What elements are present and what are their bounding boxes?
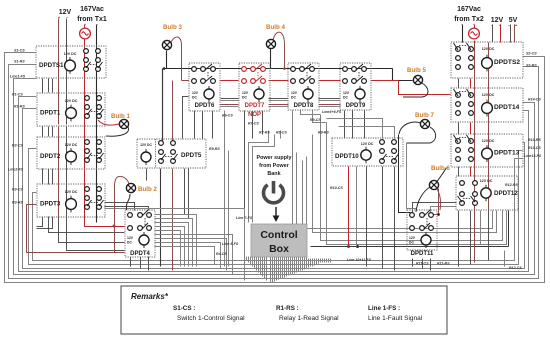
svg-text:S2-CS: S2-CS — [526, 52, 537, 56]
relay DPDT12 — [456, 176, 518, 210]
AC source Tx1 — [80, 28, 91, 39]
svg-text:DPDT13: DPDT13 — [494, 150, 520, 157]
junction red to line11 — [347, 245, 350, 248]
svg-text:Line2-FS: Line2-FS — [8, 168, 24, 172]
power symbol — [264, 181, 284, 203]
svg-text:+: + — [515, 24, 517, 28]
junction bulb2 branch — [113, 225, 116, 228]
svg-text:R3-CS: R3-CS — [12, 188, 23, 192]
svg-text:−: − — [508, 24, 510, 28]
svg-text:R7-CS: R7-CS — [248, 122, 259, 126]
svg-text:DC: DC — [242, 96, 247, 100]
svg-text:12V DC: 12V DC — [361, 142, 374, 146]
svg-text:R1-RS: R1-RS — [14, 105, 25, 109]
lamp Bulb 5 — [407, 67, 426, 85]
svg-text:DPDT9: DPDT9 — [346, 103, 366, 109]
wire: inner right risers to DPDT12 bottom — [505, 211, 509, 267]
svg-text:Bulb 1: Bulb 1 — [111, 113, 130, 120]
svg-text:Bulb 2: Bulb 2 — [138, 186, 157, 193]
svg-text:−: − — [491, 24, 493, 28]
svg-text:12V: 12V — [409, 236, 416, 240]
svg-text:167Vac: 167Vac — [80, 6, 104, 13]
wire: top-row relay chain row2 y=81 (red) — [221, 81, 451, 95]
relay DPDT8 — [288, 63, 319, 110]
lamp Bulb 7 — [415, 112, 434, 129]
svg-text:12V: 12V — [242, 91, 249, 95]
svg-text:Bulb 5: Bulb 5 — [407, 67, 426, 74]
label 12V left supply — [58, 9, 72, 20]
wire: top-row relay chain row1 y=68.5 — [163, 67, 413, 80]
power supply block — [256, 155, 291, 203]
svg-text:Bulb 4: Bulb 4 — [266, 24, 285, 31]
wire: bulb7 leads — [399, 122, 436, 212]
relay DPDT2 — [37, 137, 105, 169]
svg-text:DPDT14: DPDT14 — [494, 104, 520, 111]
svg-text:Remarks*: Remarks* — [131, 292, 169, 301]
svg-text:S1-CS :: S1-CS : — [173, 305, 195, 312]
wire: nested drops left of Control Box — [105, 209, 245, 281]
lamp Bulb 4 — [266, 24, 285, 49]
wire: DPDT4 surroundings — [105, 203, 197, 271]
svg-text:R13-CS: R13-CS — [528, 146, 541, 150]
junction coil drop on line11 — [356, 245, 359, 248]
svg-text:DC: DC — [343, 96, 348, 100]
svg-text:Relay 1-Read Signal: Relay 1-Read Signal — [279, 315, 339, 322]
arrow power to control box — [273, 207, 280, 222]
svg-text:R6-CS: R6-CS — [222, 114, 233, 118]
svg-text:R13-RS: R13-RS — [528, 138, 541, 142]
wire: bulb1 loop — [98, 120, 119, 125]
svg-text:+: + — [473, 23, 475, 27]
svg-text:12V: 12V — [192, 91, 199, 95]
svg-text:R12-CS: R12-CS — [509, 266, 522, 270]
svg-text:DPDT2: DPDT2 — [40, 153, 61, 160]
svg-text:+: + — [499, 24, 501, 28]
svg-text:12V: 12V — [127, 236, 134, 240]
svg-text:R12-RS: R12-RS — [505, 183, 518, 187]
svg-text:−: − — [461, 23, 463, 27]
wire: 12V left feed pair — [59, 19, 125, 251]
svg-text:R14-CS: R14-CS — [528, 98, 541, 102]
svg-text:R9-CS: R9-CS — [310, 118, 321, 122]
svg-text:DC: DC — [127, 241, 132, 245]
svg-text:167Vac: 167Vac — [457, 6, 481, 13]
wire: DPDT5 bottom drops — [147, 169, 189, 271]
svg-text:12V DC: 12V DC — [64, 52, 77, 56]
svg-text:R9-RS: R9-RS — [318, 131, 329, 135]
svg-text:12V DC: 12V DC — [482, 93, 495, 97]
svg-text:12V DC: 12V DC — [65, 190, 78, 194]
label 167Vac from Tx2 — [454, 6, 484, 27]
svg-text:DPDT4: DPDT4 — [130, 251, 150, 257]
label 12V right supply — [491, 17, 504, 28]
svg-text:R1-RS :: R1-RS : — [276, 305, 299, 312]
wire: Control Box bottom comb fanning into bus — [247, 257, 331, 283]
svg-text:Line4+9-FS: Line4+9-FS — [322, 110, 342, 114]
wire bundle: left nested risers and bottom bus with right risers — [5, 53, 545, 283]
svg-text:R7-RS: R7-RS — [259, 131, 270, 135]
svg-text:12V: 12V — [291, 91, 298, 95]
svg-text:DPDT12: DPDT12 — [494, 190, 518, 197]
wire: drops from DPDT6..9 to lower area — [195, 111, 395, 267]
svg-text:R2-CS: R2-CS — [12, 144, 23, 148]
net labels right side — [505, 52, 542, 188]
junction bulb3 drop — [163, 67, 166, 70]
svg-text:12V DC: 12V DC — [65, 143, 78, 147]
wire: DPDT3 bottom feeds into DPDT4 left — [37, 217, 125, 233]
svg-text:DPDT7: DPDT7 — [245, 103, 265, 109]
svg-text:S2-RS: S2-RS — [526, 64, 537, 68]
relay DPDT5 — [137, 139, 206, 168]
lamp Bulb 3 — [162, 24, 182, 50]
svg-text:R8-CS: R8-CS — [276, 131, 287, 135]
svg-text:+: + — [58, 16, 60, 20]
svg-text:R1-CS: R1-CS — [12, 93, 23, 97]
svg-text:Power supply: Power supply — [256, 155, 291, 161]
junction bulb4 maroon — [283, 67, 286, 70]
svg-text:DC: DC — [192, 96, 197, 100]
wire: line 11 run — [311, 246, 509, 248]
svg-text:Bulb 6: Bulb 6 — [431, 165, 450, 172]
junction at DPDT11 top — [437, 213, 440, 216]
relay DPDT9 — [340, 63, 371, 110]
svg-text:12V: 12V — [59, 9, 72, 16]
svg-text:12V DC: 12V DC — [480, 179, 493, 183]
svg-text:Line 1-FS :: Line 1-FS : — [368, 305, 400, 312]
svg-text:−: − — [96, 23, 98, 27]
relay DPDT4 — [125, 210, 155, 257]
wire: bulb5 leads — [403, 83, 428, 97]
svg-text:Line13-FS: Line13-FS — [524, 154, 542, 158]
svg-text:DPDT1: DPDT1 — [40, 110, 61, 117]
label 167Vac from Tx1 — [77, 6, 107, 27]
svg-text:R11-CS: R11-CS — [416, 262, 429, 266]
net labels left side — [8, 49, 26, 205]
svg-text:from Power: from Power — [259, 163, 290, 169]
svg-text:+: + — [84, 23, 86, 27]
svg-text:Line 8-FS: Line 8-FS — [222, 242, 239, 246]
svg-text:Box: Box — [269, 243, 289, 255]
svg-text:R3-RS: R3-RS — [12, 201, 23, 205]
svg-text:DPDT3: DPDT3 — [40, 201, 61, 208]
wire: drops from row chains down to DPDT5 — [163, 69, 189, 141]
svg-text:R10-CS: R10-CS — [330, 186, 343, 190]
svg-text:DPDTS1: DPDTS1 — [39, 62, 64, 69]
svg-text:DPDT6: DPDT6 — [195, 103, 215, 109]
svg-text:DC: DC — [409, 241, 414, 245]
lamp Bulb 2 — [126, 183, 157, 193]
svg-text:R4-CS: R4-CS — [216, 252, 227, 256]
relay DPDT1 — [37, 93, 105, 126]
svg-text:from Tx1: from Tx1 — [77, 16, 107, 23]
svg-text:−: − — [66, 16, 68, 20]
wire: bulb2 leads — [115, 176, 131, 252]
wire: bulb6 leads — [416, 168, 447, 213]
net labels middle — [209, 110, 522, 270]
relay DPDT3 — [37, 184, 105, 217]
svg-text:Bulb 7: Bulb 7 — [415, 112, 434, 119]
wire: 167Vac Tx1 feed pair through left contact columns — [85, 25, 125, 228]
svg-text:Line 1-Fault Signal: Line 1-Fault Signal — [368, 315, 423, 322]
svg-text:NOP: NOP — [248, 112, 261, 118]
relay DPDT11 — [407, 210, 437, 257]
svg-text:Line 10+11-FS: Line 10+11-FS — [347, 258, 372, 262]
relay DPDT10 — [332, 138, 403, 166]
svg-text:DC: DC — [291, 96, 296, 100]
wire: DPDT11 top links to DPDT12 — [413, 189, 481, 271]
lamp Bulb 1 — [111, 113, 130, 129]
AC source Tx2 — [469, 28, 480, 39]
svg-text:DPDTS2: DPDTS2 — [494, 59, 520, 66]
wire: right column inter-box drops — [459, 43, 489, 267]
wire: right column feed pairs from top — [463, 25, 515, 43]
wire: coil link bundles between top-row relays — [221, 99, 341, 107]
svg-text:12V DC: 12V DC — [482, 47, 495, 51]
svg-text:Line 7-FS: Line 7-FS — [236, 216, 253, 220]
relay DPDTS2 — [451, 42, 523, 78]
relay DPDT7 — [239, 63, 270, 118]
relay DPDT14 — [451, 88, 523, 122]
svg-text:DPDT8: DPDT8 — [294, 103, 314, 109]
lamp Bulb 6 — [429, 165, 450, 190]
wire: DPDT10 drops and red run to DPDT11 — [311, 167, 509, 271]
svg-text:Control: Control — [260, 229, 297, 241]
svg-text:Line1-FS: Line1-FS — [10, 75, 26, 79]
svg-text:S1-RS: S1-RS — [14, 60, 25, 64]
remarks box — [121, 286, 447, 334]
svg-text:Switch 1-Control Signal: Switch 1-Control Signal — [177, 315, 245, 322]
svg-text:R9-RS: R9-RS — [209, 147, 220, 151]
svg-text:DPDT10: DPDT10 — [335, 153, 359, 160]
wire: bulb4 leads — [271, 32, 285, 68]
svg-text:12V DC: 12V DC — [140, 143, 152, 147]
relay DPDT6 — [189, 63, 220, 111]
control box — [251, 224, 307, 257]
label 5V right supply — [508, 17, 518, 28]
wire: power supply area nested outline — [249, 131, 297, 239]
svg-text:DPDT5: DPDT5 — [181, 152, 202, 159]
svg-text:12V: 12V — [343, 91, 350, 95]
wire: mid vertical risers feeding DPDT10 / control area — [301, 115, 507, 245]
svg-text:12V DC: 12V DC — [65, 99, 78, 103]
wire: maroon run from DPDT4 coil leftwards along y=252 — [27, 205, 125, 253]
relay DPDTS1 — [36, 46, 106, 78]
svg-text:12V DC: 12V DC — [482, 139, 495, 143]
wire: left column inter-box drops — [37, 79, 53, 229]
svg-text:Bank: Bank — [267, 171, 280, 177]
svg-text:DPDT11: DPDT11 — [411, 251, 434, 257]
svg-text:Bulb 3: Bulb 3 — [163, 24, 182, 31]
svg-text:S1-CS: S1-CS — [14, 49, 25, 53]
relay DPDT13 — [451, 134, 523, 167]
wire: bulb3 leads — [167, 37, 190, 80]
svg-text:R11-RS: R11-RS — [437, 262, 450, 266]
svg-text:from Tx2: from Tx2 — [454, 16, 484, 23]
